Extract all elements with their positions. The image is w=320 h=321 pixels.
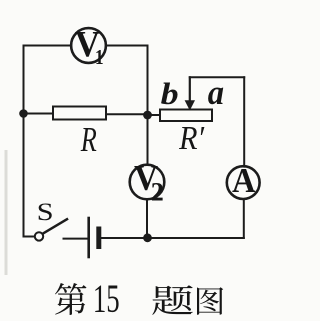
battery left long plate [87, 218, 90, 257]
svg-text:R: R [80, 119, 97, 159]
wire: bottom run [100, 237, 244, 239]
rheostat slider shaft [189, 77, 191, 101]
caption: 第 [55, 283, 86, 315]
wire: right vertical down to ammeter [243, 77, 245, 166]
voltmeter V1 [71, 28, 106, 63]
switch pivot circle [35, 232, 43, 240]
svg-text:1: 1 [95, 46, 104, 69]
svg-text:b: b [161, 77, 179, 111]
wire: ammeter to bottom [243, 199, 245, 238]
wire: R to node [106, 113, 148, 115]
svg-text:A: A [232, 162, 256, 200]
ammeter A circle [227, 166, 260, 199]
node dot bottom [143, 233, 152, 242]
svg-text:15: 15 [93, 278, 120, 321]
caption: 图 [197, 287, 223, 315]
svg-text:a: a [208, 74, 224, 112]
wire: node to resistor R [24, 113, 54, 115]
svg-text:2: 2 [151, 178, 164, 207]
svg-text:R′: R′ [178, 118, 205, 156]
slider arrowhead [185, 100, 195, 110]
svg-text:S: S [37, 198, 54, 226]
voltmeter V2 circle [130, 165, 165, 200]
wire: top left to V1 [24, 45, 72, 47]
wire: node down to V2 [147, 115, 149, 165]
node dot left [19, 109, 28, 118]
caption: 题 [152, 285, 192, 315]
rheostat R' body [160, 110, 212, 122]
wire: node to rheostat [148, 114, 161, 116]
scan smudge left edge [5, 150, 8, 275]
battery right short plate [96, 229, 101, 247]
wire: V2 to bottom node [146, 199, 148, 237]
wire: left vertical with jog to switch [24, 46, 35, 237]
wire: switch to battery [64, 238, 88, 240]
node dot middle [143, 111, 152, 120]
wire: slider top to right [190, 76, 244, 78]
wire: V1 right then down to node [106, 46, 148, 116]
resistor R [53, 107, 106, 120]
switch lever [43, 219, 67, 234]
